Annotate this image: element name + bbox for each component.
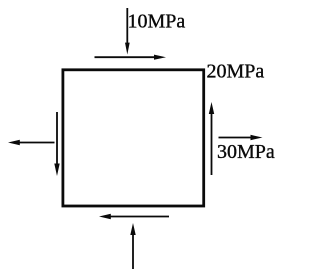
square stress element — [63, 70, 204, 206]
shear arrow left edge (pointing down) — [54, 112, 59, 176]
svg-text:30MPa: 30MPa — [217, 141, 275, 163]
svg-text:10MPa: 10MPa — [128, 11, 186, 33]
10MPa normal stress arrow (top, pointing down) — [125, 8, 130, 55]
shear arrow bottom edge (pointing left) — [99, 214, 169, 219]
shear arrow right edge (pointing up) — [209, 102, 214, 175]
shear arrow top edge (pointing right) — [95, 55, 167, 60]
svg-text:20MPa: 20MPa — [207, 60, 265, 82]
normal stress arrow (left, pointing left) — [8, 140, 55, 145]
30MPa normal stress arrow (right, pointing right) — [219, 135, 263, 140]
normal stress arrow (bottom, pointing up) — [130, 223, 135, 269]
